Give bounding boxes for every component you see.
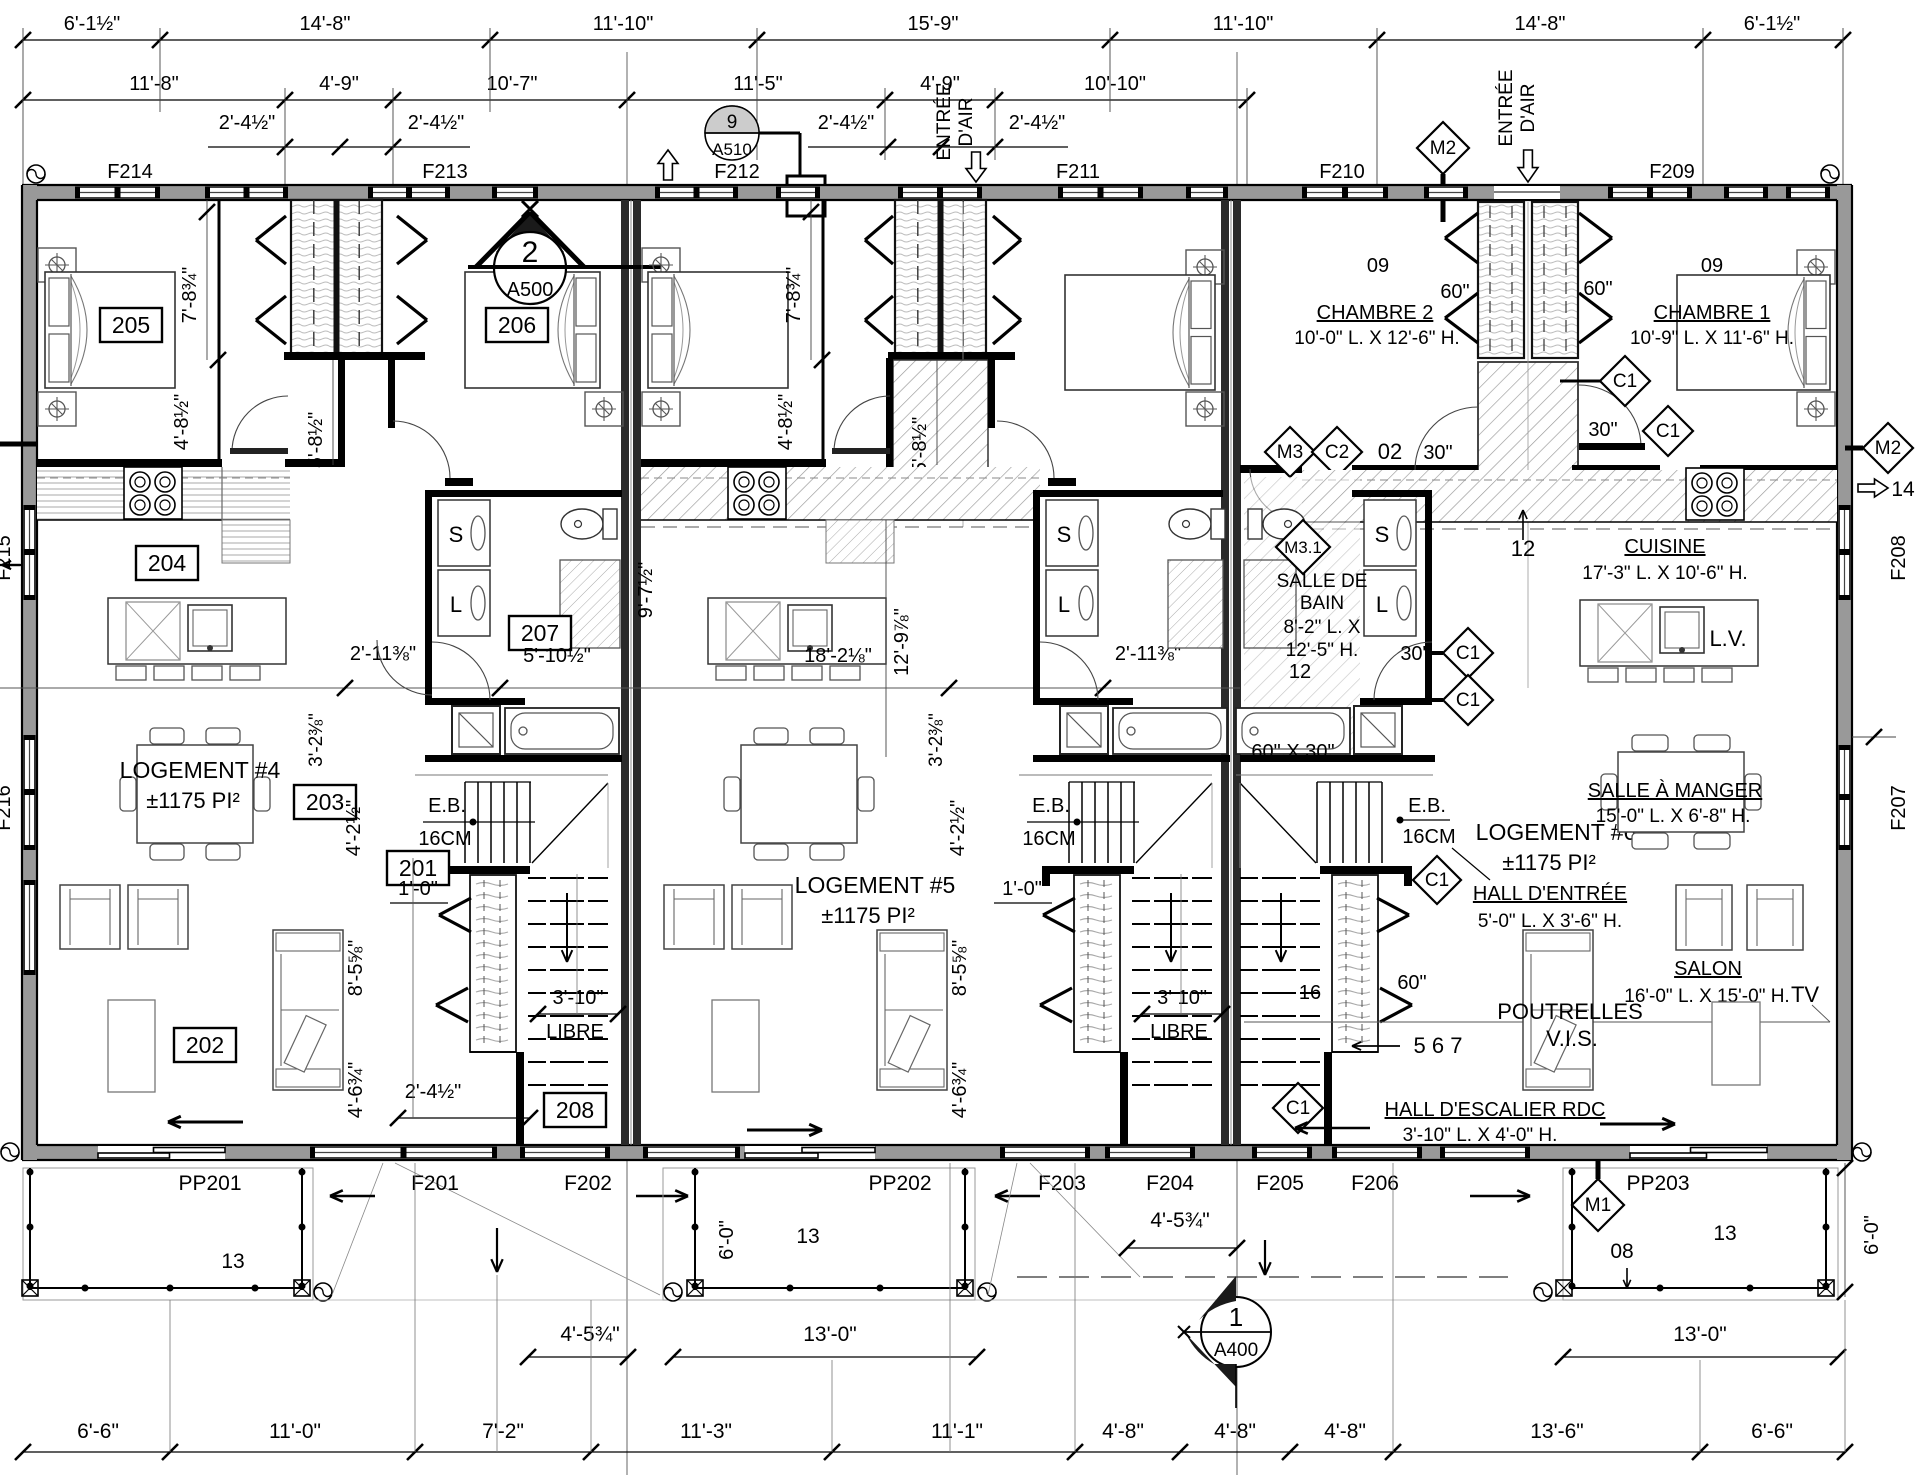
unit4 hall wall [338, 358, 345, 465]
svg-text:4'-8": 4'-8" [1102, 1420, 1144, 1443]
unit4 toilet [561, 509, 603, 539]
unit4 island [108, 598, 286, 664]
svg-text:10'-9" L. X 11'-6" H.: 10'-9" L. X 11'-6" H. [1630, 328, 1794, 349]
unit4 counter return [222, 520, 290, 563]
bottom extension lines [169, 1300, 171, 1452]
svg-text:SALLE DE: SALLE DE [1277, 571, 1368, 592]
unit5 door 205 swing [834, 396, 890, 452]
svg-text:HALL D'ESCALIER RDC: HALL D'ESCALIER RDC [1385, 1099, 1606, 1121]
unit5 coffee table [712, 1000, 759, 1092]
unit5 sofa [877, 930, 947, 1090]
svg-text:S: S [449, 522, 464, 547]
unit6 stairs mirrored [1236, 774, 1433, 776]
svg-text:E.B.: E.B. [428, 795, 466, 817]
unit6 closet left [1478, 202, 1524, 358]
svg-text:5'-0" L. X 3'-6" H.: 5'-0" L. X 3'-6" H. [1478, 911, 1622, 932]
dim 5-8 1/2 unit4 [332, 360, 334, 465]
unit5 bathroom walls [1033, 490, 1040, 705]
svg-text:±1175 PI²: ±1175 PI² [1502, 850, 1596, 875]
unit6 corridor wall [1240, 465, 1302, 473]
diamond C1 d [1443, 675, 1493, 725]
svg-text:4'-8": 4'-8" [1214, 1420, 1256, 1443]
unit4 exit arrow [168, 1121, 243, 1124]
porch1 diagonals [332, 1163, 383, 1295]
unit6 shower [1354, 706, 1402, 754]
text 14 arrow [1858, 479, 1888, 497]
diamond M2 right [1863, 423, 1913, 473]
svg-text:16CM: 16CM [418, 828, 471, 850]
svg-text:LOGEMENT #4: LOGEMENT #4 [120, 757, 281, 783]
svg-text:3'-2⅜": 3'-2⅜" [926, 713, 947, 767]
svg-text:4'-6¾": 4'-6¾" [949, 1062, 971, 1119]
svg-text:F209: F209 [1649, 161, 1695, 183]
svg-text:206: 206 [498, 312, 536, 338]
svg-text:BAIN: BAIN [1300, 593, 1344, 614]
north bottom left [1, 1143, 19, 1161]
svg-text:09: 09 [1701, 255, 1723, 277]
svg-text:17'-3" L. X 10'-6" H.: 17'-3" L. X 10'-6" H. [1582, 563, 1747, 584]
porch2 diagonals [988, 1163, 1017, 1295]
svg-text:203: 203 [306, 789, 344, 815]
unit4 closet [291, 200, 382, 358]
svg-text:4'-8½": 4'-8½" [171, 394, 193, 451]
unit4 tub [505, 708, 619, 754]
unit6 tub [1236, 708, 1350, 754]
svg-text:14'-8": 14'-8" [1515, 13, 1566, 35]
svg-text:5'-10½": 5'-10½" [523, 645, 591, 667]
right wall windows [1838, 505, 1851, 600]
dashed line under unit5 [1017, 1276, 1508, 1278]
svg-text:L: L [1058, 592, 1070, 617]
unit6 bath south wall [1240, 755, 1435, 762]
svg-text:60": 60" [1397, 972, 1426, 994]
svg-text:TV: TV [1791, 982, 1819, 1007]
svg-text:11'-10": 11'-10" [1213, 13, 1274, 35]
svg-text:F205: F205 [1256, 1172, 1304, 1195]
unit5 tub [1113, 708, 1227, 754]
north symbol top-right [1821, 165, 1839, 183]
unit4 armchairs [60, 885, 120, 949]
unit4 bath door swing [432, 642, 490, 700]
diamond C2 [1312, 427, 1362, 477]
room tag 208 [544, 1093, 606, 1127]
svg-text:ENTRÉE: ENTRÉE [934, 83, 955, 160]
detail symbol 9/A510 [705, 132, 800, 135]
svg-text:SALLE À MANGER: SALLE À MANGER [1588, 779, 1763, 802]
M2 diamond top [1417, 122, 1469, 174]
unit6 exit arrow [1600, 1123, 1675, 1126]
svg-text:HALL D'ENTRÉE: HALL D'ENTRÉE [1473, 882, 1627, 905]
unit5 washer dryer [1046, 500, 1098, 566]
room tag 203 [294, 785, 356, 819]
porch 2 [663, 1168, 975, 1300]
unit5 bath south wall [1033, 755, 1230, 762]
svg-text:F206: F206 [1351, 1172, 1399, 1195]
svg-text:7'-8¾": 7'-8¾" [179, 267, 201, 324]
svg-text:V.I.S.: V.I.S. [1546, 1026, 1598, 1051]
unit4 hall door swing [377, 640, 432, 695]
dim row1 [23, 39, 1843, 41]
svg-text:4'-5¾": 4'-5¾" [560, 1323, 619, 1346]
svg-text:C1: C1 [1613, 371, 1637, 392]
svg-text:CUISINE: CUISINE [1624, 536, 1705, 558]
svg-text:F216: F216 [0, 785, 15, 831]
right margin dim tick [1852, 736, 1896, 738]
svg-text:E.B.: E.B. [1032, 795, 1070, 817]
svg-text:F207: F207 [1888, 785, 1910, 831]
svg-text:C1: C1 [1456, 643, 1480, 664]
unit6 chambre1 bed [1797, 250, 1835, 284]
unit4 bed 205 [38, 248, 76, 282]
svg-text:F210: F210 [1319, 161, 1365, 183]
unit6 tv table [1712, 1002, 1760, 1085]
svg-text:12: 12 [1289, 661, 1311, 683]
arrow left F203 [995, 1195, 1040, 1198]
unit4 washer dryer [438, 500, 490, 566]
dim extension lines top [22, 28, 24, 185]
svg-text:60": 60" [1440, 281, 1469, 303]
svg-text:8'-5⅝": 8'-5⅝" [949, 940, 971, 997]
svg-text:10'-0" L. X 12'-6" H.: 10'-0" L. X 12'-6" H. [1294, 328, 1459, 349]
left wall windows [23, 505, 36, 600]
unit4 vanity [560, 560, 620, 648]
north bottom right [1853, 1143, 1871, 1161]
unit4 bathroom walls [425, 490, 432, 705]
diamond C1 c [1443, 628, 1493, 678]
svg-text:PP201: PP201 [178, 1172, 241, 1195]
unit5 island [708, 598, 886, 664]
svg-text:1'-0": 1'-0" [398, 878, 438, 900]
svg-text:C1: C1 [1425, 870, 1449, 891]
diamond C1 a [1600, 356, 1650, 406]
svg-text:2'-4½": 2'-4½" [219, 112, 276, 134]
svg-text:3'-2⅜": 3'-2⅜" [306, 713, 327, 767]
unit4 bed 206 [500, 248, 538, 282]
svg-text:60" X 30": 60" X 30" [1251, 741, 1334, 763]
bottom wall windows [310, 1146, 497, 1159]
svg-text:L: L [1376, 592, 1388, 617]
svg-text:6'-1½": 6'-1½" [64, 13, 121, 35]
svg-text:13'-6": 13'-6" [1530, 1420, 1584, 1443]
unit6 stove [1686, 468, 1744, 520]
svg-text:L.V.: L.V. [1709, 626, 1746, 651]
dim 7-8 3/4 unit5 [810, 200, 812, 360]
unit6 armchairs [1676, 885, 1732, 950]
svg-text:F211: F211 [1056, 161, 1100, 183]
room tag 204 [136, 546, 198, 580]
unit5 dining table [754, 728, 788, 744]
unit6 washer dryer [1364, 500, 1416, 566]
svg-text:A510: A510 [712, 140, 752, 159]
unit5 air duct line [962, 202, 964, 527]
svg-text:2'-4½": 2'-4½" [1009, 112, 1066, 134]
unit6 dining table [1632, 735, 1668, 751]
svg-text:60": 60" [1583, 278, 1612, 300]
unit4 kitchen counter [37, 467, 290, 520]
svg-text:13'-0": 13'-0" [1673, 1323, 1727, 1346]
diamond C1 hall [1273, 1083, 1323, 1133]
unit6 chambre2 bed [1186, 250, 1224, 284]
arrow right porch3 [1470, 1195, 1530, 1198]
svg-text:10'-10": 10'-10" [1084, 73, 1146, 95]
arrow right F202-porch2 [636, 1195, 688, 1198]
svg-text:4'-9": 4'-9" [319, 73, 359, 95]
svg-text:F213: F213 [422, 161, 468, 183]
unit4 stove [124, 467, 182, 519]
beam line [1244, 1021, 1830, 1023]
svg-text:16: 16 [1299, 982, 1321, 1004]
unit5 closet [895, 200, 986, 358]
unit5 closet chevrons [865, 216, 893, 240]
svg-text:3'-10": 3'-10" [553, 987, 604, 1009]
svg-text:±1175 PI²: ±1175 PI² [821, 903, 915, 928]
section symbol 1/A400 [1201, 1297, 1271, 1367]
unit5 hall walls [886, 358, 893, 493]
svg-text:LOGEMENT #5: LOGEMENT #5 [795, 872, 956, 898]
svg-text:4'-2½": 4'-2½" [947, 800, 969, 857]
room tag 201 [387, 851, 449, 885]
svg-text:6'-1½": 6'-1½" [1744, 13, 1801, 35]
svg-text:LIBRE: LIBRE [1150, 1021, 1208, 1043]
svg-text:C2: C2 [1325, 442, 1349, 463]
svg-text:PP202: PP202 [868, 1172, 931, 1195]
svg-text:11'-0": 11'-0" [269, 1420, 321, 1443]
unit4 closet chevron left [256, 216, 286, 240]
svg-text:M2: M2 [1430, 138, 1456, 159]
diamond C1 b [1643, 406, 1693, 456]
unit5 stairs [1019, 774, 1212, 776]
svg-text:02: 02 [1378, 439, 1402, 464]
porch 3 [1563, 1168, 1838, 1300]
unit5 counter return [826, 520, 894, 563]
unit4 closet chevron right [397, 216, 427, 240]
svg-text:6'-0": 6'-0" [1861, 1215, 1883, 1255]
svg-text:F203: F203 [1038, 1172, 1086, 1195]
svg-text:F214: F214 [107, 161, 153, 183]
unit5 stove [728, 467, 786, 519]
dim 12-9 7/8 [885, 520, 887, 757]
dim row bottom [23, 1451, 1845, 1453]
svg-text:M1: M1 [1585, 1195, 1611, 1216]
left wall [22, 185, 37, 1160]
room tag 207 [509, 616, 571, 650]
svg-text:207: 207 [521, 620, 559, 646]
unit5 armchairs [664, 885, 724, 949]
top wall [22, 185, 1852, 200]
svg-text:30": 30" [1423, 442, 1452, 464]
svg-text:30": 30" [1400, 643, 1429, 665]
unit4 bed206 door jamb [388, 358, 395, 428]
svg-text:15'-9": 15'-9" [908, 13, 959, 35]
svg-text:M2: M2 [1875, 438, 1901, 459]
svg-text:4'-8": 4'-8" [1324, 1420, 1366, 1443]
section line mid [0, 687, 1240, 689]
unit4 door 205 swing [232, 396, 288, 452]
svg-text:14'-8": 14'-8" [300, 13, 351, 35]
svg-text:14: 14 [1891, 478, 1915, 501]
svg-text:ENTRÉE: ENTRÉE [1496, 69, 1517, 146]
svg-text:08: 08 [1610, 1240, 1633, 1263]
svg-text:S: S [1375, 522, 1390, 547]
svg-text:4'-5¾": 4'-5¾" [1150, 1209, 1209, 1232]
svg-text:2'-4½": 2'-4½" [818, 112, 875, 134]
svg-text:11'-5": 11'-5" [733, 73, 782, 95]
svg-text:2'-4½": 2'-4½" [408, 112, 465, 134]
svg-text:LIBRE: LIBRE [546, 1021, 604, 1043]
unit5 toilet [1169, 509, 1211, 539]
arrow down F201 [496, 1228, 498, 1272]
unit4 bath south wall [425, 755, 622, 762]
svg-text:7'-2": 7'-2" [482, 1420, 524, 1443]
unit4 door 206 swing [393, 421, 450, 478]
diamond M3.1 [1276, 520, 1330, 574]
svg-text:16CM: 16CM [1022, 828, 1075, 850]
bottom wall patio doors [98, 1146, 225, 1159]
unit5 kitchen counter hatched [641, 467, 1040, 520]
svg-text:8'-5⅝": 8'-5⅝" [345, 940, 367, 997]
svg-text:4'-6¾": 4'-6¾" [345, 1062, 367, 1119]
svg-text:9'-7½": 9'-7½" [635, 562, 657, 619]
unit5 shower [1060, 706, 1108, 754]
unit6 sofa [1523, 930, 1593, 1090]
bottom wall [22, 1145, 1852, 1160]
dim row3 left [208, 146, 470, 148]
dim row3 right [808, 146, 1068, 148]
svg-text:204: 204 [148, 550, 187, 576]
svg-text:3'-10" L. X 4'-0" H.: 3'-10" L. X 4'-0" H. [1403, 1125, 1558, 1146]
unit4 kitchen north wall [37, 459, 222, 467]
svg-text:F208: F208 [1888, 535, 1910, 581]
unit6 vanity [1244, 560, 1296, 648]
svg-text:6'-6": 6'-6" [77, 1420, 119, 1443]
unit6 closet right [1532, 202, 1578, 358]
svg-text:11'-10": 11'-10" [593, 13, 654, 35]
arrow down mid [1264, 1240, 1266, 1275]
grid line B [1236, 52, 1238, 1160]
svg-text:CHAMBRE 2: CHAMBRE 2 [1317, 302, 1434, 324]
svg-text:C1: C1 [1456, 690, 1480, 711]
svg-text:F212: F212 [714, 161, 760, 183]
svg-text:6'-0": 6'-0" [716, 1220, 738, 1260]
unit5 kitchen north wall [641, 459, 826, 467]
svg-text:5'-8½": 5'-8½" [305, 412, 327, 469]
svg-text:L: L [450, 592, 462, 617]
svg-text:10'-7": 10'-7" [487, 73, 538, 95]
up arrow near F212 [658, 150, 678, 180]
svg-text:15'-0" L. X 6'-8" H.: 15'-0" L. X 6'-8" H. [1596, 806, 1751, 827]
svg-text:16'-0" L. X 15'-0" H.: 16'-0" L. X 15'-0" H. [1624, 986, 1789, 1007]
svg-text:12'-5" H.: 12'-5" H. [1286, 640, 1359, 661]
svg-text:PP203: PP203 [1626, 1172, 1689, 1195]
unit6 toilet [1248, 509, 1262, 539]
party wall 1 [621, 200, 629, 1145]
svg-text:1: 1 [1229, 1302, 1243, 1332]
svg-text:E.B.: E.B. [1408, 795, 1446, 817]
svg-text:7'-8¾": 7'-8¾" [783, 267, 805, 324]
arrow left F201 [330, 1195, 375, 1198]
room tag 206 [486, 308, 548, 342]
left wall tie [0, 442, 37, 447]
svg-text:5 6 7: 5 6 7 [1414, 1033, 1463, 1058]
unit5 bath door swing [1040, 642, 1098, 700]
svg-text:13: 13 [796, 1225, 819, 1248]
room tag 202 [174, 1028, 236, 1062]
svg-text:16CM: 16CM [1402, 826, 1455, 848]
svg-text:A500: A500 [507, 279, 554, 301]
unit5 bed [642, 248, 680, 282]
unit4 bedroom205 wall east [218, 200, 221, 462]
unit5 vestibule hatch [893, 360, 988, 490]
svg-text:13'-0": 13'-0" [803, 1323, 857, 1346]
unit5 exit arrow [747, 1129, 822, 1132]
diamond M3 [1265, 427, 1315, 477]
svg-text:C1: C1 [1656, 421, 1680, 442]
unit5 bedroom east wall [822, 200, 825, 462]
unit6 kitchen counter [1302, 470, 1837, 522]
svg-text:3' 10": 3' 10" [1157, 987, 1207, 1009]
svg-text:205: 205 [112, 312, 150, 338]
svg-text:208: 208 [556, 1097, 594, 1123]
svg-text:13: 13 [1713, 1222, 1736, 1245]
detail symbol 2/A500 [522, 201, 538, 217]
top wall windows [75, 186, 160, 199]
svg-text:30": 30" [1588, 419, 1617, 441]
svg-text:2'-11⅜": 2'-11⅜" [350, 643, 416, 665]
svg-text:M3.1: M3.1 [1284, 538, 1322, 557]
unit6 island [1580, 600, 1758, 666]
svg-text:S: S [1057, 522, 1072, 547]
svg-text:6'-6": 6'-6" [1751, 1420, 1793, 1443]
unit5 door swing bedroom [997, 421, 1054, 478]
unit6 bathroom walls [1425, 490, 1432, 705]
svg-text:18'-2⅛": 18'-2⅛" [804, 645, 872, 667]
unit6 air duct line [1527, 202, 1529, 688]
svg-text:F204: F204 [1146, 1172, 1194, 1195]
unit6 bath door swing [1250, 469, 1302, 521]
dim 7-8 3/4 unit4 [206, 200, 208, 360]
party wall 2 [1221, 200, 1229, 1145]
svg-text:±1175 PI²: ±1175 PI² [146, 788, 240, 813]
svg-text:CHAMBRE 1: CHAMBRE 1 [1654, 302, 1771, 324]
dim 6-0 porch3 [1844, 1163, 1846, 1297]
dim row2 [23, 99, 1247, 101]
svg-text:202: 202 [186, 1032, 224, 1058]
svg-text:SALON: SALON [1674, 958, 1742, 980]
unit6 vestibule door swings [1415, 407, 1478, 470]
unit6 entry door top wall [1494, 186, 1560, 199]
svg-text:1'-0": 1'-0" [1002, 878, 1042, 900]
svg-text:11'-8": 11'-8" [129, 73, 178, 95]
unit6 vestibule hatch [1478, 362, 1578, 492]
right wall [1837, 185, 1852, 1160]
unit5 vanity [1168, 560, 1223, 648]
diamond C1 stairs [1413, 856, 1461, 904]
svg-text:2: 2 [522, 236, 539, 269]
svg-text:F201: F201 [411, 1172, 459, 1195]
svg-text:9: 9 [727, 112, 738, 133]
north symbol top-left [27, 165, 45, 183]
svg-text:A400: A400 [1214, 1340, 1258, 1361]
svg-text:4'-8½": 4'-8½" [775, 394, 797, 451]
svg-text:D'AIR: D'AIR [1518, 83, 1539, 132]
left margin arrow [2, 564, 20, 566]
svg-text:M3: M3 [1277, 442, 1303, 463]
svg-text:4'-2½": 4'-2½" [343, 800, 365, 857]
unit4 dining table [150, 728, 184, 744]
grid line A [626, 52, 628, 1475]
svg-text:F215: F215 [0, 535, 15, 581]
svg-text:11'-1": 11'-1" [931, 1420, 983, 1443]
